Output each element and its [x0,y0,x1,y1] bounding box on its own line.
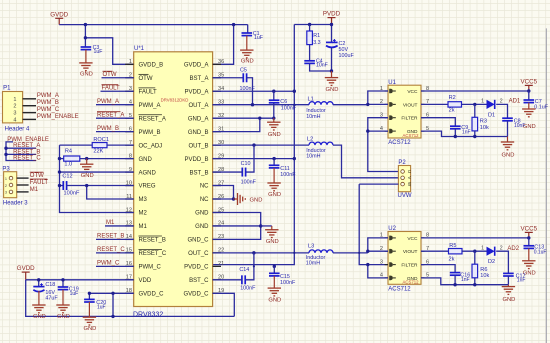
junction PVDD_B [272,157,296,160]
svg-text:1nF: 1nF [461,277,470,283]
IC pin 18 GVDD_C [125,288,164,297]
svg-text:PWM_B: PWM_B [139,130,161,136]
svg-text:NC: NC [200,184,209,190]
capacitor C11 [269,159,296,179]
junction C19 [61,278,64,281]
wire GVDD_A riser pin36 [213,25,234,65]
IC pin 25 GND [195,207,224,216]
junction PVDD_A [272,90,296,93]
resistor R1 [307,25,321,47]
IC pin 3 FAULT [125,86,157,95]
wire VREG to M3 pin11 [87,186,134,199]
svg-text:GND: GND [80,72,93,78]
IC pin 21 PVDD_C [184,261,224,270]
wire C10 riser [246,145,254,172]
wire PWM_ENABLE tie bracket [6,142,36,161]
svg-text:OUT_C: OUT_C [188,251,209,257]
svg-text:47uF: 47uF [45,295,58,301]
svg-text:PWM_C: PWM_C [139,265,162,271]
svg-text:Header 4: Header 4 [5,127,30,133]
wire L3 into U2 pins 1/2 [368,238,388,251]
svg-text:W: W [407,182,412,187]
svg-text:1: 1 [5,177,7,181]
wire U1 pins 3/4 to P2 pin1 [368,118,399,172]
svg-text:RESET_C: RESET_C [97,247,125,253]
svg-text:R5: R5 [449,243,456,249]
svg-text:2: 2 [5,184,7,188]
wire L1 to U1 [333,104,368,106]
svg-text:100nF: 100nF [280,280,296,286]
svg-text:10mH: 10mH [306,114,320,120]
net label AD1 [509,99,521,105]
capacitor C5 [240,68,256,93]
junction VCC5 bottom [527,236,530,239]
wire PVDD rail [294,25,331,43]
junction C12 rail [58,184,61,187]
capacitor C16 [450,273,470,283]
svg-text:10k: 10k [480,125,489,131]
svg-text:GND: GND [266,239,279,245]
svg-text:GND: GND [81,173,94,179]
junction OUT_A [251,103,254,106]
svg-text:OTW: OTW [139,76,153,82]
wire GVDD rail [59,24,248,26]
svg-text:ACS712: ACS712 [388,287,411,293]
resistor R6 [472,251,490,279]
svg-text:100nF: 100nF [241,180,257,186]
IC pin 33 OUT_A [188,100,224,109]
wire C5 to OUT_A [247,78,253,105]
IC pin 17 VDD [125,275,152,284]
svg-text:GND: GND [241,59,254,65]
svg-text:NC: NC [200,197,209,203]
svg-text:GND: GND [250,197,263,203]
svg-text:RESET_B: RESET_B [139,238,166,244]
ground sideways at NC [234,193,263,205]
net label OTW wire pin2 [102,71,134,78]
junction GVDD bottom [111,292,114,319]
svg-text:L2: L2 [307,137,313,143]
resistor R4 [60,148,134,167]
wire C3/pin1 branch [85,25,133,65]
svg-text:1uF: 1uF [70,291,79,297]
svg-text:GVDD_C: GVDD_C [183,291,209,297]
ground at pin8 GND [80,159,94,180]
svg-text:PWM_ENABLE: PWM_ENABLE [37,114,79,120]
svg-text:GND: GND [195,224,209,230]
capacitor C7 [524,91,549,111]
svg-text:10nF: 10nF [316,63,328,69]
IC pin 32 GND_A [188,113,224,122]
svg-text:PVDD_A: PVDD_A [184,89,208,95]
svg-text:C14: C14 [239,267,249,273]
svg-text:2k: 2k [449,107,455,113]
capacitor C13 [524,238,547,256]
svg-text:M1: M1 [106,220,115,226]
IC pin 12 M2 [125,207,147,216]
ground below C20 [83,302,97,332]
svg-text:GND: GND [502,152,515,158]
svg-text:2: 2 [13,104,16,110]
wire D2 to C17 [496,251,508,273]
svg-text:PWM_B: PWM_B [97,126,119,132]
net label RESET_A [13,143,40,149]
wire C16 bottom [454,275,456,285]
svg-text:FAULT: FAULT [30,180,49,186]
svg-text:VREG: VREG [139,184,156,190]
wire U2 VIOUT pin7 [421,250,449,252]
wire VDD pin17 rail [26,279,134,281]
power flag VCC5 (bottom) [521,225,538,238]
svg-text:BST_A: BST_A [189,76,208,82]
net label FAULT wire pin3 [101,85,134,92]
svg-text:3: 3 [380,259,383,265]
ground below C19 [56,290,70,320]
svg-text:3.3: 3.3 [313,40,321,46]
IC pin 2 OTW [125,73,153,82]
wire R5 to D2 [462,250,487,252]
svg-text:GVDD_B: GVDD_B [139,63,164,69]
svg-text:VCC: VCC [407,89,418,95]
net label FAULT at P3 [30,179,49,186]
wire GVDD bottom loop [26,280,235,317]
svg-text:DRV8312DKD: DRV8312DKD [161,98,189,103]
IC pin 5 RESET_A [125,113,166,122]
IC pin 31 GND_B [188,126,224,135]
IC pin 9 AGND [125,167,156,176]
net label OTW at P3 [30,172,44,179]
svg-text:GVDD_A: GVDD_A [184,63,209,69]
svg-text:GVDD: GVDD [50,11,68,18]
IC pin 6 PWM_B [125,126,160,135]
net label RESET_A wire pin5 [96,112,134,119]
svg-text:100uF: 100uF [339,53,355,59]
svg-text:R3: R3 [480,118,487,124]
svg-text:OUT_B: OUT_B [188,143,208,149]
ground below C7 [522,103,536,130]
svg-text:1uF: 1uF [97,305,106,311]
capacitor C10 [241,161,257,185]
svg-text:100nF: 100nF [280,172,296,178]
IC pin 35 BST_A [189,73,224,82]
capacitor C1 [242,25,263,41]
ground below C2 [325,71,339,93]
junction GND_A/GND_B [258,116,275,119]
svg-text:M2: M2 [139,211,148,217]
svg-text:OTW: OTW [103,72,117,78]
wire U2 FILTER pin6 to C16 [421,265,455,273]
net label M1 wire pin13 [105,220,134,226]
junction VCC5 [527,89,530,92]
svg-text:ACS712: ACS712 [388,140,411,146]
wire R2 to D1 [462,103,487,105]
capacitor C4 [304,45,328,69]
wire BST_B pin28 [213,171,243,173]
wire PVDD_A pin34 [213,90,295,92]
wire OUT_B pin30 to L2 [213,144,309,146]
svg-text:FILTER: FILTER [401,116,418,122]
svg-text:PVDD_B: PVDD_B [184,157,208,163]
wire C6 bottom to GND_A [273,103,275,118]
wire crossing artifacts [253,104,361,268]
svg-text:VDD: VDD [139,278,152,284]
wire C8 bottom [507,121,509,137]
diode D2 [481,245,503,265]
junction C18 [37,278,40,281]
svg-text:RESET_B: RESET_B [97,234,124,240]
svg-text:PWM_A: PWM_A [97,99,119,105]
junction U2 output [366,263,369,266]
svg-text:RESET_A: RESET_A [13,143,40,149]
svg-text:GND: GND [139,157,153,163]
svg-text:P1: P1 [3,86,11,92]
wire R6 bottom [474,278,476,285]
svg-text:DRV8332: DRV8332 [133,311,163,318]
svg-text:OC_ADJ: OC_ADJ [139,143,163,149]
net label RESET_C [13,156,41,162]
svg-text:RESET_B: RESET_B [13,149,40,155]
junction on GVDD rail at C3 [84,23,87,40]
power flag GVDD (top) [50,11,68,24]
svg-text:R2: R2 [449,95,456,101]
svg-text:10k: 10k [480,273,489,279]
svg-text:FILTER: FILTER [401,263,418,269]
net label PWM_B wire pin6 [96,126,134,132]
svg-text:RESET_C: RESET_C [139,251,167,257]
svg-text:GND: GND [268,298,281,304]
svg-text:ROC1: ROC1 [93,137,109,143]
connector P1 Header 4 [3,86,37,133]
svg-text:D2: D2 [488,259,495,265]
svg-text:U*1: U*1 [134,46,145,52]
ground below C11 [267,168,281,198]
svg-text:GND: GND [57,314,70,320]
ground below C18 [32,291,46,320]
wire U2 pin4 riser [368,265,388,278]
svg-text:GND: GND [268,192,281,198]
svg-text:3: 3 [13,111,16,117]
svg-text:100nF: 100nF [281,106,297,112]
junction GND pin24 [259,224,262,227]
junction bracket [4,147,7,157]
IC pin 16 PWM_C [125,261,161,270]
ground phase A [501,137,515,159]
svg-text:C12: C12 [62,174,72,180]
connector P2 UVW [398,160,412,199]
capacitor C18 electrolytic [33,280,58,302]
wire L1 into U1 pins 1/2 [368,91,388,104]
svg-text:C15: C15 [280,274,290,280]
net label PWM_C wire pin16 [96,261,134,267]
inductor L2 [306,137,333,160]
power flag VCC5 (top) [521,78,538,91]
IC U*1 DRV8332 body [133,46,213,318]
ground below C15 [268,276,282,304]
IC pin 23 GND_C [187,234,224,243]
svg-text:2: 2 [500,245,503,251]
wire L3 to U2 [333,252,368,254]
svg-text:10mH: 10mH [306,153,320,159]
svg-text:Header 3: Header 3 [3,200,28,206]
capacitor C2 electrolytic [326,39,354,59]
inductor L1 [306,97,333,120]
capacitor C14 [239,267,256,291]
svg-text:PWM_ENABLE: PWM_ENABLE [7,137,49,143]
net label RESET_B wire pin14 [96,234,134,240]
svg-text:AD2: AD2 [507,246,519,252]
svg-text:100nF: 100nF [64,191,80,197]
svg-text:GND: GND [33,314,46,320]
net label PWM_C at P1 [37,107,60,113]
svg-text:36: 36 [218,59,224,65]
IC pin 34 PVDD_A [184,86,224,95]
junction OUT_C / C14 riser [252,251,255,254]
svg-text:PWM_C: PWM_C [97,261,120,267]
svg-text:1.0: 1.0 [64,161,72,167]
net label PWM_ENABLE [7,137,49,143]
IC pin 10 VREG [125,180,156,189]
wire C9 bottom [454,129,456,137]
IC pin 11 M3 [125,194,147,203]
capacitor C20 [84,293,106,310]
IC pin 19 GVDD_C [183,288,224,297]
wire U1 VCC pin8 [421,90,529,92]
svg-text:GND: GND [268,132,281,138]
svg-text:1: 1 [481,245,484,251]
junction PVDD rail [308,23,333,26]
svg-text:GND: GND [195,211,209,217]
svg-text:1: 1 [13,97,16,103]
svg-text:0.1uF: 0.1uF [534,249,547,255]
IC pin 15 RESET_C [125,248,167,257]
junction C20 [88,292,91,295]
svg-text:ACS712: ACS712 [402,133,419,138]
svg-text:U: U [407,170,412,173]
svg-text:VCC: VCC [407,236,418,242]
net label RESET_C wire pin15 [96,247,134,253]
svg-text:RESET_C: RESET_C [13,156,41,162]
svg-text:C11: C11 [280,166,290,172]
wire left ground rail vertical [60,145,134,212]
IC pin 30 OUT_B [188,140,224,149]
svg-text:ACS712: ACS712 [402,280,419,285]
svg-text:C5: C5 [240,68,247,74]
power flag PVDD [323,11,341,25]
wire U2 VCC pin8 [421,237,529,239]
capacitor C12 [60,174,134,197]
svg-text:21: 21 [218,261,224,267]
resistor ROC1 [60,137,134,155]
svg-text:1nF: 1nF [462,129,471,135]
wire BST_C pin20 [213,279,242,281]
svg-text:1uF: 1uF [94,49,103,55]
junction NC [232,197,235,200]
svg-text:22K: 22K [93,149,103,155]
svg-text:GND_C: GND_C [187,238,209,244]
svg-text:PWM_C: PWM_C [37,107,60,113]
svg-text:10nF: 10nF [514,123,525,129]
IC pin 29 PVDD_B [184,153,224,162]
svg-text:BST_B: BST_B [189,170,208,176]
wire PVDD main vertical [213,25,295,265]
wire GND_A pin32 [213,117,274,119]
capacitor C8 [502,118,525,129]
junction U1 output [366,129,369,132]
ground at pins 24 [265,226,279,245]
junction R4 rail [58,157,89,160]
IC U2 ACS712 [380,226,429,293]
ground at GND_A [267,118,281,138]
junction gnd rail A [454,135,477,138]
junction VREG/M3 [85,184,88,187]
wire C17 bottom [507,276,509,285]
ground below C1 [240,36,254,65]
ground below C13 [522,248,536,276]
svg-text:AGND: AGND [139,170,157,176]
svg-text:RESET_A: RESET_A [139,116,166,122]
IC pin 4 PWM_A [125,100,160,109]
svg-text:C18: C18 [45,282,55,288]
svg-text:M3: M3 [139,197,148,203]
svg-text:1uF: 1uF [254,35,263,41]
junction PVDD_C / C15 [273,265,276,268]
svg-text:OTW: OTW [30,173,44,179]
svg-text:BST_C: BST_C [189,278,209,284]
wire OUT_C pin22 to L3 [213,252,309,254]
junction AGND rail [58,170,61,173]
svg-text:PWM_A: PWM_A [139,103,161,109]
IC U1 ACS712 [380,80,429,146]
svg-text:D1: D1 [488,113,495,119]
svg-text:4: 4 [13,117,16,123]
wire GND branch [261,225,272,227]
net label PWM_A wire pin4 [96,99,134,105]
IC pin 27 NC [200,180,224,189]
net label PWM_A at P1 [37,93,59,99]
svg-text:2k: 2k [449,257,455,263]
inductor L3 [306,243,333,266]
svg-text:3: 3 [5,191,7,195]
junction U1 input [366,103,369,106]
IC pin 8 GND [125,153,152,162]
IC pin 14 RESET_B [125,234,166,243]
capacitor C19 [58,280,79,297]
IC pin 20 BST_C [189,275,224,284]
svg-text:M1: M1 [30,187,39,193]
svg-text:100nF: 100nF [240,285,256,291]
svg-text:PVDD: PVDD [323,11,341,18]
net label AD2 [507,246,519,252]
connector P3 Header 3 [2,167,28,207]
net label RESET_B [13,149,40,155]
capacitor C6 [269,91,297,111]
resistor R5 [449,243,463,262]
junction R6 top [473,250,476,253]
svg-text:10mH: 10mH [306,260,320,266]
capacitor C3 [81,45,103,55]
svg-text:VIOUT: VIOUT [403,102,418,108]
wire L2 to P2 pin2 [333,145,398,178]
svg-text:GND_B: GND_B [188,130,209,136]
svg-text:GND_A: GND_A [188,116,209,122]
svg-text:GND: GND [326,87,339,93]
svg-text:UVW: UVW [398,193,412,199]
capacitor C15 [269,266,296,286]
svg-text:VCC5: VCC5 [521,78,538,85]
svg-text:1: 1 [129,59,132,65]
net label M1 at P3 [30,187,39,193]
IC pin 13 M1 [125,221,147,230]
